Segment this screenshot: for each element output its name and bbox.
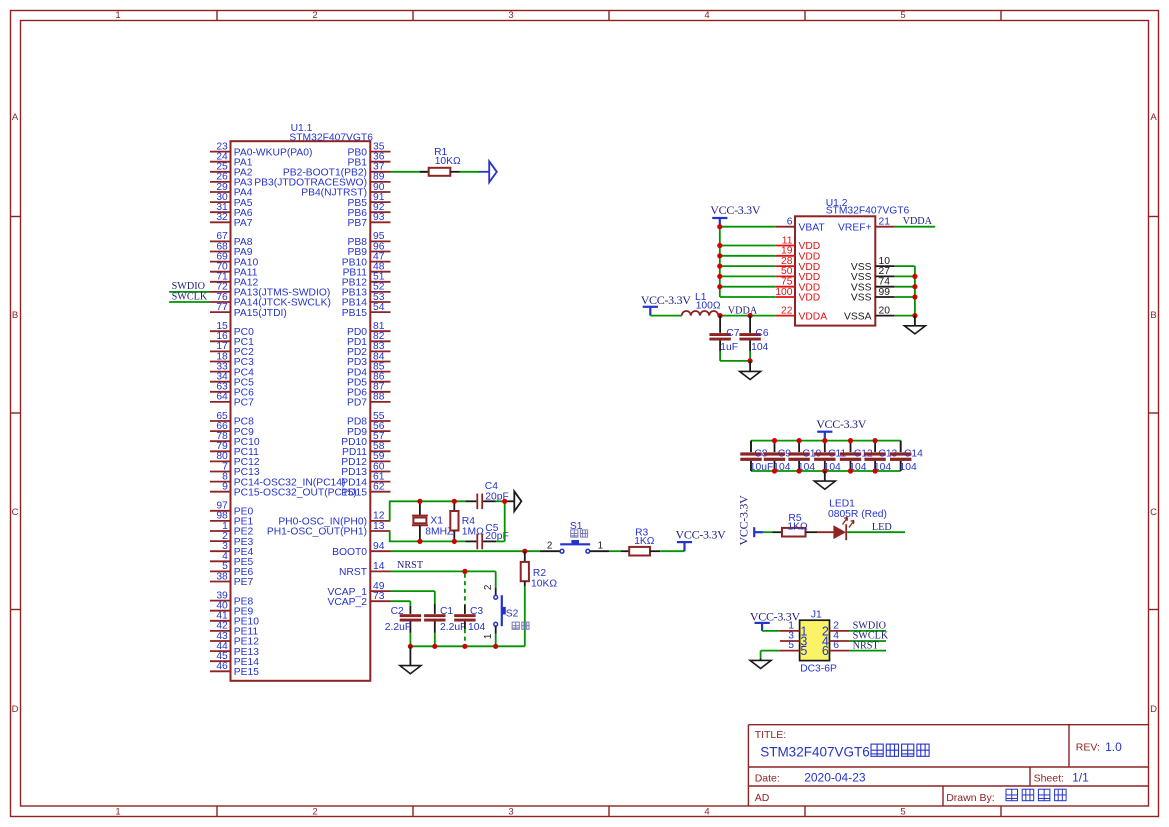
wire net OSC_IN: U1.1 pin 12 up to crystal top rail bbox=[390, 501, 466, 521]
svg-text:LED: LED bbox=[872, 522, 892, 533]
wire net VDDA from U1.2 pin 21 bbox=[894, 226, 935, 228]
svg-text:0805R (Red): 0805R (Red) bbox=[828, 509, 887, 520]
svg-text:PE15: PE15 bbox=[234, 667, 259, 678]
svg-text:2.2uF: 2.2uF bbox=[385, 622, 411, 633]
wire net SWDIO to U1.1 pin 72 bbox=[169, 291, 210, 293]
svg-text:32: 32 bbox=[216, 212, 228, 223]
junction VDDA-C7 bbox=[718, 313, 723, 318]
IC U1.2 STM32F407VGT6 (power pins) bbox=[776, 198, 910, 326]
svg-text:3: 3 bbox=[508, 807, 513, 818]
svg-text:100: 100 bbox=[775, 287, 792, 298]
U1.2 VSS pins 10 27 74 99 bbox=[851, 256, 895, 304]
capacitor C3 104 bbox=[454, 574, 485, 647]
svg-text:3: 3 bbox=[508, 10, 513, 21]
power symbol VCC-3.3V at LED branch (rotated) bbox=[737, 495, 763, 546]
svg-text:5: 5 bbox=[800, 644, 807, 658]
capacitor C9 104 bbox=[764, 441, 791, 473]
svg-text:1: 1 bbox=[115, 807, 120, 818]
power symbol VCC-3.3V at U1.2 VBAT bbox=[712, 217, 727, 219]
resistor R5 1KOhm bbox=[782, 513, 808, 537]
power symbol VCC-3.3V at L1 bbox=[643, 306, 658, 308]
capacitor C10 104 bbox=[788, 441, 821, 473]
svg-text:STM32F407VGT6: STM32F407VGT6 bbox=[289, 132, 373, 143]
capacitor C4 20pF bbox=[465, 481, 508, 509]
svg-text:PA15(JTDI): PA15(JTDI) bbox=[234, 308, 287, 319]
svg-text:PH1-OSC_OUT(PH1): PH1-OSC_OUT(PH1) bbox=[267, 527, 367, 538]
svg-text:C3: C3 bbox=[470, 606, 483, 617]
svg-text:R2: R2 bbox=[533, 568, 546, 579]
svg-text:2: 2 bbox=[312, 807, 317, 818]
svg-text:2020-04-23: 2020-04-23 bbox=[804, 771, 866, 785]
U1.2 VDD pins 11 19 28 50 75 100 bbox=[775, 235, 820, 303]
wire net NRST from J1 pin 6 bbox=[849, 650, 886, 652]
wire U1.1 pin 37 to R1 bbox=[391, 171, 429, 173]
label S1 an jian bbox=[571, 530, 578, 537]
ground under decoupling bank bbox=[814, 471, 835, 489]
svg-text:4: 4 bbox=[704, 807, 709, 818]
inductor L1 100Ohm bbox=[682, 292, 721, 316]
U1.2 VREF+ pin 21 bbox=[838, 217, 894, 234]
wire S2 bottom to ground rail bbox=[495, 626, 497, 634]
wire net OSC_OUT: U1.1 pin 13 down to crystal bottom rail bbox=[390, 531, 466, 541]
svg-text:13: 13 bbox=[373, 521, 385, 532]
wire U1.1 pin 73 to C2 bbox=[391, 601, 411, 606]
wire ground rail under C1 C2 C3 S2 R2 bbox=[410, 645, 524, 647]
svg-text:99: 99 bbox=[879, 287, 891, 298]
no-connect flag at R1 output bbox=[489, 161, 497, 182]
svg-text:54: 54 bbox=[373, 302, 385, 313]
svg-text:1/1: 1/1 bbox=[1072, 771, 1089, 785]
title text STM32F407VGT6 minimal system bbox=[760, 744, 929, 759]
svg-text:D: D bbox=[12, 704, 19, 715]
svg-text:2: 2 bbox=[312, 10, 317, 21]
svg-text:TITLE:: TITLE: bbox=[755, 729, 787, 741]
svg-text:NRST: NRST bbox=[397, 560, 424, 571]
power symbol VCC-3.3V at decoupling bank bbox=[817, 431, 832, 433]
svg-text:STM32F407VGT6: STM32F407VGT6 bbox=[760, 745, 870, 760]
svg-text:C: C bbox=[1150, 507, 1157, 518]
svg-text:X1: X1 bbox=[430, 516, 443, 527]
power symbol VCC-3.3V at R3 bbox=[677, 541, 692, 543]
wire net VDDA to U1.2 pin 22 bbox=[718, 315, 775, 317]
wire C7 C6 bottoms bbox=[720, 360, 750, 362]
connector J1 DC3-6P bbox=[780, 609, 850, 674]
svg-text:C14: C14 bbox=[904, 448, 923, 459]
svg-text:1: 1 bbox=[598, 541, 603, 552]
resistor R3 1KOhm bbox=[629, 527, 655, 555]
wire net BOOT0 from U1.1 pin 94 bbox=[391, 550, 540, 552]
svg-text:VCC-3.3V: VCC-3.3V bbox=[737, 495, 751, 546]
ground under J1 bbox=[750, 660, 771, 668]
capacitor C6 104 bbox=[739, 316, 768, 353]
svg-text:PA7: PA7 bbox=[234, 218, 253, 229]
svg-text:21: 21 bbox=[879, 217, 891, 228]
svg-text:A: A bbox=[12, 112, 19, 123]
IC U1.1 STM32F407VGT6 (MCU port pins) bbox=[210, 123, 391, 681]
svg-text:104: 104 bbox=[900, 462, 917, 473]
wire R3 to VCC-3.3V bbox=[650, 550, 660, 552]
junction NRST-C3 bbox=[462, 569, 467, 574]
capacitor C5 20pF bbox=[465, 523, 508, 550]
svg-text:D: D bbox=[1150, 704, 1157, 715]
svg-text:1KΩ: 1KΩ bbox=[787, 522, 808, 533]
svg-text:PC15-OSC32_OUT(PC15): PC15-OSC32_OUT(PC15) bbox=[234, 487, 357, 498]
LED LED1 0805R (Red) bbox=[828, 498, 887, 540]
svg-text:5: 5 bbox=[900, 10, 905, 21]
svg-text:C7: C7 bbox=[726, 328, 739, 339]
svg-text:VDDA: VDDA bbox=[903, 216, 933, 227]
svg-text:6: 6 bbox=[833, 640, 839, 651]
title block bbox=[748, 725, 1149, 806]
junction C6 bottom bbox=[748, 358, 753, 363]
wire decoupling bank top rail bbox=[751, 440, 901, 442]
svg-text:100Ω: 100Ω bbox=[696, 301, 721, 312]
wire decoupling bank bottom rail bbox=[751, 470, 901, 472]
label S2 an jian bbox=[512, 622, 519, 629]
svg-text:1MΩ: 1MΩ bbox=[462, 527, 484, 538]
svg-text:6: 6 bbox=[787, 217, 793, 228]
wire R1 to flag bbox=[450, 171, 460, 173]
svg-text:73: 73 bbox=[373, 591, 385, 602]
svg-text:VREF+: VREF+ bbox=[838, 222, 871, 233]
capacitor C12 104 bbox=[840, 441, 873, 473]
svg-text:VDD: VDD bbox=[799, 293, 821, 304]
svg-text:9: 9 bbox=[222, 482, 228, 493]
svg-text:STM32F407VGT6: STM32F407VGT6 bbox=[826, 206, 910, 217]
svg-text:VCAP_2: VCAP_2 bbox=[328, 597, 368, 608]
capacitor C8 10uF bbox=[740, 441, 773, 473]
wire crystal right side loop bbox=[496, 501, 505, 541]
svg-text:1: 1 bbox=[483, 634, 494, 639]
capacitor C11 104 bbox=[814, 441, 846, 473]
wire R5 to LED1 bbox=[806, 531, 818, 533]
crystal X1 8MHZ bbox=[412, 501, 453, 541]
junction dots oscillator bbox=[417, 499, 422, 504]
wire VCC bus to VBAT and VDD pins bbox=[720, 227, 776, 297]
svg-text:5: 5 bbox=[788, 640, 794, 651]
svg-text:R4: R4 bbox=[462, 516, 475, 527]
svg-text:VCC-3.3V: VCC-3.3V bbox=[676, 527, 727, 541]
wire J1 pin 5 to ground bbox=[761, 651, 780, 661]
wire U1.1 pin 49 to C1 bbox=[391, 591, 435, 604]
capacitor C13 104 bbox=[864, 441, 897, 473]
svg-text:VCC-3.3V: VCC-3.3V bbox=[641, 293, 692, 307]
svg-text:VSSA: VSSA bbox=[844, 311, 872, 322]
svg-text:BOOT0: BOOT0 bbox=[332, 547, 367, 558]
svg-text:LED1: LED1 bbox=[829, 498, 855, 509]
junction BOOT0-R2 bbox=[522, 549, 527, 554]
junction dots decoupling bank bbox=[772, 438, 777, 443]
wire S1 to R3 bbox=[590, 550, 609, 552]
svg-text:A: A bbox=[1150, 112, 1157, 123]
ground under C2 rail bbox=[400, 646, 421, 673]
wire VCC to L1 bbox=[650, 315, 681, 317]
svg-text:PE7: PE7 bbox=[234, 577, 254, 588]
svg-text:46: 46 bbox=[216, 661, 228, 672]
Sheet field bbox=[1034, 771, 1090, 785]
svg-text:C4: C4 bbox=[485, 481, 498, 492]
svg-text:2: 2 bbox=[483, 585, 494, 590]
svg-text:64: 64 bbox=[216, 392, 228, 403]
wire VSS pins to ground bus bbox=[894, 266, 915, 316]
svg-text:104: 104 bbox=[751, 342, 768, 353]
svg-text:14: 14 bbox=[373, 561, 385, 572]
resistor R1 10KOhm bbox=[429, 147, 461, 176]
svg-text:PD15: PD15 bbox=[341, 487, 367, 498]
svg-text:62: 62 bbox=[373, 482, 385, 493]
svg-text:22: 22 bbox=[781, 305, 793, 316]
svg-text:PD7: PD7 bbox=[347, 398, 367, 409]
svg-text:93: 93 bbox=[373, 212, 385, 223]
svg-text:VBAT: VBAT bbox=[799, 222, 826, 233]
svg-text:C1: C1 bbox=[440, 606, 453, 617]
ground under VSSA bbox=[904, 316, 925, 334]
no-connect flag at oscillator bbox=[505, 491, 522, 511]
svg-text:10KΩ: 10KΩ bbox=[435, 156, 461, 167]
svg-text:6: 6 bbox=[822, 644, 829, 658]
wire net NRST from U1.1 pin 14 bbox=[391, 571, 496, 595]
svg-text:PB7: PB7 bbox=[348, 218, 368, 229]
svg-text:1uF: 1uF bbox=[720, 342, 738, 353]
ground under C6 bbox=[740, 361, 761, 380]
junction VDDA-C6 bbox=[748, 313, 753, 318]
wire VCC to J1 pin 1 bbox=[762, 630, 780, 632]
svg-text:B: B bbox=[12, 310, 18, 321]
wire VCC to R5 bbox=[763, 531, 773, 533]
svg-text:J1: J1 bbox=[811, 609, 822, 620]
capacitor C14 104 bbox=[890, 441, 923, 473]
U1.2 VDDA pin 22 bbox=[776, 305, 828, 322]
resistor R2 10KOhm bbox=[521, 551, 558, 589]
svg-text:1: 1 bbox=[115, 10, 120, 21]
switch S2 pushbutton bbox=[494, 595, 519, 626]
wire net SWCLK from J1 pin 4 bbox=[849, 640, 886, 642]
svg-text:PC7: PC7 bbox=[234, 398, 254, 409]
svg-text:C6: C6 bbox=[755, 328, 768, 339]
svg-text:C: C bbox=[12, 507, 19, 518]
svg-text:1KΩ: 1KΩ bbox=[634, 536, 655, 547]
svg-text:AD: AD bbox=[755, 792, 770, 804]
junction dots VCC bus bbox=[717, 224, 722, 229]
svg-text:Drawn By:: Drawn By: bbox=[946, 792, 994, 804]
svg-text:Date:: Date: bbox=[755, 772, 780, 784]
svg-text:104: 104 bbox=[468, 622, 485, 633]
power symbol VCC-3.3V at J1 bbox=[755, 622, 770, 624]
REV field bbox=[1076, 740, 1122, 754]
capacitor C1 2.2uF bbox=[424, 604, 466, 633]
svg-text:VDDA: VDDA bbox=[728, 305, 758, 316]
svg-text:38: 38 bbox=[216, 571, 228, 582]
svg-text:PB15: PB15 bbox=[342, 308, 367, 319]
svg-text:10uF: 10uF bbox=[750, 462, 773, 473]
switch S1 pushbutton bbox=[560, 521, 590, 553]
svg-text:S2: S2 bbox=[506, 608, 519, 619]
svg-text:SWCLK: SWCLK bbox=[172, 291, 208, 302]
resistor R4 1MOhm bbox=[450, 501, 484, 541]
svg-text:B: B bbox=[1150, 310, 1156, 321]
svg-text:5: 5 bbox=[900, 807, 905, 818]
svg-text:8MHZ: 8MHZ bbox=[425, 527, 453, 538]
wire R2 bottom to ground rail bbox=[524, 586, 526, 646]
svg-text:VCC-3.3V: VCC-3.3V bbox=[710, 203, 761, 217]
svg-text:VCC-3.3V: VCC-3.3V bbox=[816, 417, 867, 431]
svg-text:Sheet:: Sheet: bbox=[1034, 772, 1064, 784]
svg-text:REV:: REV: bbox=[1076, 742, 1100, 754]
junction dots VSS bus bbox=[912, 274, 917, 279]
svg-text:1.0: 1.0 bbox=[1105, 740, 1122, 754]
svg-text:77: 77 bbox=[216, 302, 228, 313]
svg-text:88: 88 bbox=[373, 392, 385, 403]
svg-text:94: 94 bbox=[373, 541, 385, 552]
wire net SWCLK to U1.1 pin 76 bbox=[169, 301, 210, 303]
wire net LED from LED1 cathode bbox=[847, 531, 905, 533]
svg-text:2: 2 bbox=[547, 541, 552, 552]
U1.2 VSSA pin 20 bbox=[844, 305, 894, 322]
svg-text:2.2uF: 2.2uF bbox=[440, 622, 466, 633]
svg-text:VSS: VSS bbox=[851, 293, 872, 304]
svg-text:NRST: NRST bbox=[339, 567, 368, 578]
wire net SWDIO from J1 pin 2 bbox=[849, 630, 886, 632]
svg-text:DC3-6P: DC3-6P bbox=[800, 664, 837, 675]
Date field bbox=[755, 771, 866, 785]
svg-text:10KΩ: 10KΩ bbox=[531, 578, 557, 589]
svg-text:NRST: NRST bbox=[853, 640, 880, 651]
svg-text:4: 4 bbox=[704, 10, 709, 21]
capacitor C2 2.2uF bbox=[385, 606, 421, 633]
Drawn By field bbox=[946, 789, 1066, 804]
svg-text:C2: C2 bbox=[391, 606, 404, 617]
svg-text:VDDA: VDDA bbox=[799, 311, 828, 322]
capacitor C7 1uF bbox=[709, 316, 739, 353]
svg-text:20: 20 bbox=[879, 305, 891, 316]
junction dots ground rail bbox=[408, 644, 413, 649]
